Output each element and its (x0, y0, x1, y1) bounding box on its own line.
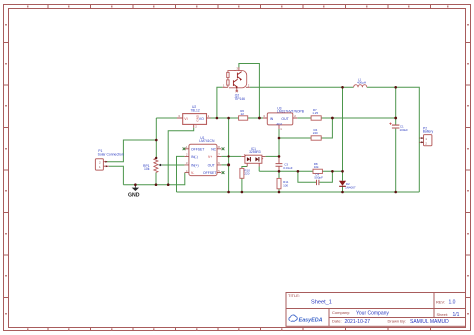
svg-text:1.25: 1.25 (312, 111, 318, 115)
svg-text:10k: 10k (314, 165, 319, 169)
capacitor C1 100uF (389, 123, 408, 133)
connector P2 Battery (419, 126, 433, 145)
svg-text:OFFSET: OFFSET (191, 147, 204, 151)
capacitor C4 500pF (314, 173, 323, 186)
wire U1 V- to GND rail A (123, 173, 184, 185)
wire P1 pin2 to rail A (109, 166, 124, 185)
title block (286, 293, 466, 327)
potentiometer RP1 10k (143, 158, 162, 172)
diode D2 1N4007 (339, 181, 356, 190)
svg-text:REV:: REV: (436, 299, 445, 304)
wire U2 VI left segment (156, 117, 177, 119)
capacitor C3 0.01uF (276, 156, 293, 171)
ground GND (128, 185, 140, 199)
resistor R11 100 (277, 178, 289, 188)
inductor L1 400uH (354, 78, 367, 88)
svg-text:10k: 10k (144, 167, 150, 171)
svg-text:2021-10-27: 2021-10-27 (345, 319, 371, 325)
svg-text:Drawn By:: Drawn By: (388, 318, 406, 323)
wire P1 pin1 to U2-VI net (107, 140, 156, 162)
svg-text:OUT: OUT (281, 117, 289, 121)
wire U1 OUT (221, 164, 228, 166)
wire V+ / IC1 / OUT column (228, 118, 230, 192)
connector P1 Solar Connection (95, 149, 123, 170)
wire U2 GND down to rail A (168, 128, 194, 185)
resistor R6 22 (239, 109, 248, 120)
EasyEDA logo (289, 315, 323, 323)
svg-text:1.0: 1.0 (449, 300, 456, 306)
svg-text:1/1: 1/1 (453, 312, 460, 318)
svg-text:V-: V- (191, 171, 194, 175)
svg-text:3255R3: 3255R3 (249, 150, 261, 154)
wire U1 V+ horizontal (221, 155, 228, 157)
wire R4 line to ADJ (279, 118, 332, 138)
svg-text:Company:: Company: (332, 310, 350, 315)
svg-text:Sheet_1: Sheet_1 (311, 299, 332, 305)
svg-text:EasyEDA: EasyEDA (299, 317, 323, 323)
wire bottom rail B (177, 191, 420, 193)
svg-text:V+: V+ (208, 155, 212, 159)
svg-text:400µH: 400µH (357, 81, 366, 85)
svg-text:Sheet:: Sheet: (437, 312, 449, 317)
svg-text:IN: IN (270, 117, 274, 121)
svg-text:Battery: Battery (423, 130, 434, 134)
optocoupler IC1 3255R3 (241, 147, 265, 167)
junction dots (134, 86, 397, 193)
svg-text:IN(+): IN(+) (191, 163, 199, 167)
svg-text:IN(-): IN(-) (191, 155, 198, 159)
svg-text:78L12: 78L12 (191, 108, 200, 112)
svg-text:Your Company: Your Company (356, 310, 389, 316)
svg-text:OUT: OUT (208, 163, 215, 167)
regulator U2 78L12 (177, 105, 211, 128)
wire Q2 emitter to U3 IN column (239, 64, 260, 119)
wire ADJ column (278, 129, 280, 192)
wire IC1 right-top to ADJ column (265, 155, 279, 157)
svg-text:TITLE:: TITLE: (288, 293, 300, 298)
svg-text:LM317HVT/NOPB: LM317HVT/NOPB (277, 110, 305, 114)
wire IC1 bottom-left to R10 (242, 167, 247, 193)
svg-text:100uF: 100uF (400, 128, 409, 132)
svg-text:VI: VI (184, 117, 187, 121)
wire C4 parallel loop (298, 171, 333, 182)
resistor R7 1.25 (311, 108, 321, 120)
svg-text:1N4007: 1N4007 (345, 185, 356, 189)
svg-text:GND: GND (128, 192, 140, 198)
wire 12V rail U2 VO to R6 and U3 IN (211, 117, 264, 119)
resistor R4 240 (311, 128, 321, 140)
svg-text:TIP146: TIP146 (234, 97, 245, 101)
wire to IC1 left-top pin (229, 155, 242, 157)
svg-text:220: 220 (244, 172, 249, 176)
wire RP1 wiper to U1 IN+ (162, 164, 184, 166)
svg-text:OFFSET: OFFSET (203, 171, 216, 175)
regulator U3 LM317HVT/NOPB (263, 106, 305, 131)
svg-text:SAMIUL MAMUD: SAMIUL MAMUD (410, 319, 449, 325)
wire D2 column (342, 87, 344, 192)
resistor R8 10k (313, 162, 322, 174)
transistor Q2 TIP146 (223, 66, 250, 100)
svg-text:LM741CN: LM741CN (199, 139, 215, 143)
svg-text:100: 100 (283, 183, 288, 187)
svg-text:Solar Connection: Solar Connection (98, 152, 124, 156)
wire C1 column (395, 87, 397, 192)
svg-text:240: 240 (313, 131, 318, 135)
wire U2 VI vertical down to RP1 (155, 118, 157, 158)
svg-text:500pF: 500pF (314, 176, 323, 180)
wire feedback line y171 (259, 167, 342, 172)
wire U3 OUT / R7 output line (297, 117, 396, 119)
svg-text:VO: VO (199, 117, 204, 121)
wire U1 IN- down to rail B (177, 156, 185, 192)
wire Q2 base drive (217, 87, 223, 118)
resistor R10 220 (240, 168, 250, 178)
wire collector rail to battery (250, 87, 419, 192)
wire RP1 bottom to rail A (155, 173, 157, 185)
svg-text:22: 22 (241, 112, 245, 116)
svg-text:NC: NC (211, 147, 216, 151)
svg-text:Date:: Date: (332, 318, 342, 323)
svg-text:0.01uF: 0.01uF (283, 166, 293, 170)
svg-text:GND: GND (195, 114, 199, 122)
op-amp U1 LM741CN (183, 136, 225, 176)
